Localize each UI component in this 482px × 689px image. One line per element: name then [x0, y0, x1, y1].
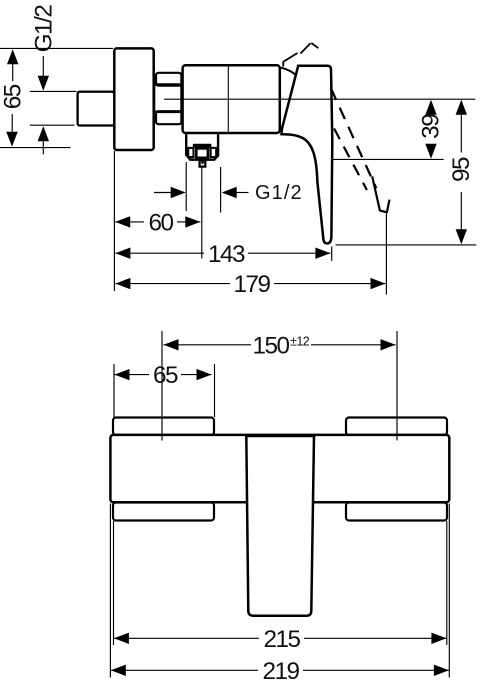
extension line outlet left [185, 162, 187, 211]
dimension 219 [111, 658, 449, 685]
extension line escutcheon right lower (215 dim) [446, 521, 448, 645]
main body bar [110, 435, 449, 502]
dimension 39 (vertical) [417, 100, 444, 159]
svg-text:±12: ±12 [290, 335, 310, 349]
pipe bottom extension line [30, 124, 75, 126]
dimension 60 [115, 210, 200, 237]
center valve block [245, 436, 315, 616]
svg-text:179: 179 [233, 271, 270, 298]
extension line escutcheon right (65 dim) [214, 364, 216, 417]
escutcheon top right [346, 418, 447, 436]
extension line lever tip [331, 247, 333, 261]
extension line bar right (219 dim) [448, 504, 450, 678]
extension line top (65 dim) [0, 47, 113, 49]
mounting centerline right [396, 331, 398, 441]
extension line escutcheon left (65 dim) [113, 364, 115, 417]
dimension 65 (left, vertical) [0, 49, 27, 147]
body seam line [227, 67, 229, 132]
escutcheon bottom right [346, 503, 447, 521]
outlet block [186, 133, 218, 160]
svg-text:65: 65 [153, 362, 178, 389]
extension line wall plate left [113, 151, 115, 291]
outlet nipple detail [188, 144, 216, 158]
svg-text:G1/2: G1/2 [31, 5, 58, 53]
svg-text:60: 60 [148, 210, 173, 237]
extension line bottom (65 dim) [0, 147, 71, 149]
svg-text:39: 39 [417, 114, 444, 139]
label G1/2 (outlet) with arrows [154, 182, 303, 204]
svg-text:65: 65 [0, 84, 27, 109]
svg-text:95: 95 [448, 157, 475, 182]
svg-text:150: 150 [253, 333, 290, 360]
inlet pipe stub [78, 92, 115, 126]
extension line 39 bottom [333, 158, 444, 160]
label G1/2 (left, vertical) with leader [31, 5, 58, 155]
dimension 143 [115, 241, 330, 268]
lever handle (solid) [281, 66, 332, 244]
centerline [164, 98, 475, 100]
pipe top extension line [30, 90, 77, 92]
dimension 179 [115, 271, 385, 298]
handle raised position (thin outline) [283, 43, 318, 67]
outlet nozzle [200, 160, 206, 166]
svg-text:215: 215 [263, 626, 300, 653]
wall plate (side view) [114, 48, 153, 150]
extension line dashed lever tip [385, 213, 387, 295]
extension line outlet right [220, 167, 222, 213]
handle raised position (dashed lever) [331, 89, 390, 213]
extension line escutcheon left lower (215 dim) [113, 521, 115, 645]
mounting centerline left [161, 331, 163, 441]
svg-text:G1/2: G1/2 [255, 182, 303, 204]
extension line bar left (219 dim) [109, 504, 111, 678]
escutcheon top left [113, 418, 214, 436]
dimension 150 +/-12 [164, 333, 396, 360]
svg-text:219: 219 [262, 658, 299, 685]
escutcheon bottom left [113, 503, 214, 521]
dimension 215 [114, 626, 447, 653]
mixer body [183, 65, 280, 133]
union nut [154, 73, 181, 124]
extension line outlet center [201, 167, 203, 259]
dimension 95 (vertical) [448, 100, 475, 245]
svg-text:143: 143 [208, 241, 245, 268]
dimension 65 (front view) [115, 362, 212, 389]
extension line 95 bottom [336, 244, 477, 246]
